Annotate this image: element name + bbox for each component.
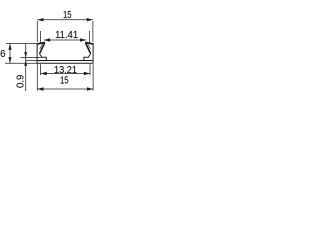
svg-text:15: 15 [63, 10, 72, 21]
svg-text:15: 15 [60, 75, 69, 86]
svg-text:6: 6 [0, 49, 5, 60]
svg-text:0.9: 0.9 [16, 75, 27, 88]
svg-text:11.41: 11.41 [55, 30, 78, 41]
